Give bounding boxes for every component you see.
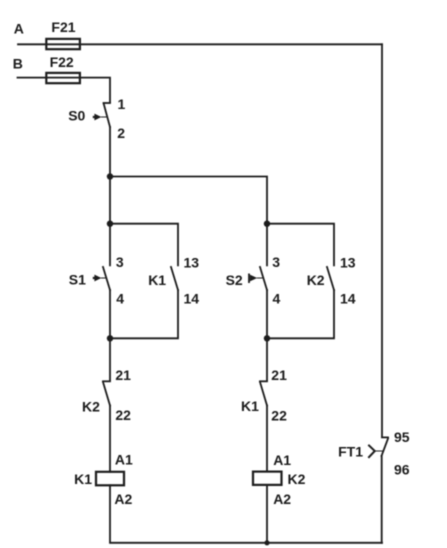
svg-text:A: A: [14, 20, 24, 36]
svg-text:S0: S0: [68, 107, 85, 123]
svg-text:2: 2: [117, 125, 125, 141]
svg-text:F21: F21: [51, 19, 75, 35]
svg-text:S2: S2: [226, 272, 243, 288]
svg-text:3: 3: [116, 254, 124, 270]
svg-text:K1: K1: [148, 272, 166, 288]
svg-text:K1: K1: [74, 471, 92, 487]
svg-text:4: 4: [116, 290, 124, 306]
svg-text:3: 3: [272, 254, 280, 270]
svg-text:21: 21: [271, 367, 287, 383]
svg-text:22: 22: [271, 407, 287, 423]
svg-text:S1: S1: [69, 271, 86, 287]
svg-text:4: 4: [273, 290, 281, 306]
svg-text:14: 14: [340, 290, 356, 306]
svg-text:21: 21: [115, 367, 131, 383]
svg-text:14: 14: [184, 290, 200, 306]
svg-text:K1: K1: [241, 398, 259, 414]
svg-text:K2: K2: [288, 471, 306, 487]
svg-text:K2: K2: [82, 399, 100, 415]
svg-text:A1: A1: [115, 452, 133, 468]
svg-text:K2: K2: [307, 272, 325, 288]
svg-text:96: 96: [394, 461, 410, 477]
svg-text:13: 13: [340, 254, 356, 270]
svg-text:B: B: [13, 55, 23, 71]
svg-text:22: 22: [115, 407, 131, 423]
svg-text:F22: F22: [50, 54, 74, 70]
svg-text:13: 13: [184, 254, 200, 270]
svg-text:95: 95: [394, 429, 410, 445]
svg-text:1: 1: [118, 96, 126, 112]
svg-text:A2: A2: [114, 491, 132, 507]
svg-text:A1: A1: [273, 452, 291, 468]
svg-text:FT1: FT1: [338, 443, 363, 459]
svg-text:A2: A2: [273, 491, 291, 507]
